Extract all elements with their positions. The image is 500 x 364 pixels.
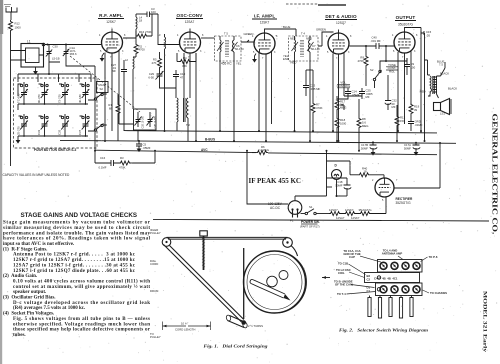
svg-text:12SQ7: 12SQ7	[329, 208, 338, 212]
trimmer capacitor row2 #4	[78, 114, 89, 137]
trimmer capacitor row1 #1	[17, 82, 28, 105]
resistor R8 5.6 MEG	[357, 99, 368, 151]
scan streak artifacts top right	[286, 3, 318, 5]
svg-text:12SK7: 12SK7	[260, 21, 270, 25]
junction dot	[47, 44, 49, 46]
svg-text:those specified may help local: those specified may help localize defect…	[13, 328, 151, 333]
R.F. AMPL stage label	[98, 13, 124, 24]
resistor R16 270K	[136, 14, 152, 38]
capacitor gang C1B C2B box	[134, 109, 158, 130]
wire L1 to RF grid	[45, 44, 101, 46]
svg-text:12SQ7: 12SQ7	[336, 21, 346, 25]
svg-text:50MF: 50MF	[404, 146, 411, 150]
op... tube V1 R.F. 12SK7	[102, 32, 123, 53]
Fig 2 callout TO C1A	[343, 249, 381, 262]
svg-text:R3: R3	[120, 156, 124, 160]
capacitor C40 .001 MF	[371, 36, 395, 50]
ground in push button box	[16, 136, 21, 144]
svg-text:35Z5GT/G: 35Z5GT/G	[396, 201, 412, 205]
svg-text:40-180: 40-180	[78, 94, 82, 103]
svg-text:(1) R-F Stage Gains.: (1) R-F Stage Gains.	[3, 247, 48, 252]
transformer T5 dashed box	[215, 32, 242, 62]
capacitor C13 .005MF	[303, 70, 321, 96]
T5 secondary coil	[233, 36, 234, 61]
Fig 2 callout TO L2	[336, 268, 365, 278]
T6 secondary to speaker	[437, 76, 441, 98]
wire bus AVC y151	[95, 148, 437, 155]
svg-text:Fig. 2. Selector Switch Wiri: Fig. 2. Selector Switch Wiring Diagram	[339, 328, 428, 333]
wire OUTPUT pins	[398, 51, 411, 131]
svg-text:YEL: YEL	[236, 62, 242, 66]
tube pin number digits	[99, 34, 418, 202]
Fig 2 terminal prongs	[368, 298, 413, 319]
Fig 2 callout TO CHASSIS	[423, 290, 448, 295]
Fig 1 cord right pulley to drum	[291, 246, 298, 257]
MAN S2 switch box	[97, 82, 109, 93]
svg-text:(4) Socket Pin Voltages.: (4) Socket Pin Voltages.	[3, 312, 55, 317]
Fig 1 dimension arrows	[163, 322, 211, 332]
resistor R6 2.2 MEG	[252, 145, 269, 155]
wire OUTPUT plate up	[405, 28, 422, 33]
svg-text:47K: 47K	[152, 61, 157, 65]
Fig 1 left callout fragments	[150, 228, 161, 339]
capacitor C29 6-50 trimmer	[148, 71, 176, 88]
Fig 1 tuning shaft cylinder	[226, 315, 248, 329]
T5 trimmer arrows	[217, 42, 244, 51]
Fig 1 diagonal cord to tuning shaft	[164, 245, 244, 323]
coil L4	[136, 14, 143, 31]
svg-text:C2B 10-365: C2B 10-365	[155, 116, 157, 129]
svg-text:0.10 volts at 400 cycles acros: 0.10 volts at 400 cycles across volume c…	[13, 280, 150, 285]
Fig 2 callout TO C1B	[338, 262, 366, 275]
svg-text:.05MF: .05MF	[143, 146, 151, 150]
corner smudge mark	[4, 5, 11, 7]
svg-text:.001 MF: .001 MF	[371, 39, 382, 43]
svg-text:AVC: AVC	[201, 148, 208, 152]
switch S1 power	[301, 205, 330, 215]
svg-text:R16: R16	[139, 30, 145, 34]
svg-text:18: 18	[139, 19, 143, 23]
label 100-125V AC-DC	[268, 202, 283, 210]
tube V2 OSC 12SA7	[180, 32, 201, 53]
wire C13/R7 top	[306, 69, 313, 71]
pilot lamp D	[332, 164, 342, 197]
svg-text:input so that AVC is not effec: input so that AVC is not effective.	[3, 242, 75, 247]
svg-text:12SK7 r-f grid to 12SA7 grid.: 12SK7 r-f grid to 12SA7 grid. . . . . . …	[13, 258, 136, 263]
svg-text:.05: .05	[426, 33, 430, 37]
svg-text:CORD LENGTH: CORD LENGTH	[175, 328, 195, 332]
OUTPUT stage label	[395, 15, 416, 27]
labels around T4	[283, 37, 312, 65]
Fig 1 left pulley	[162, 238, 171, 247]
wire C3 to OSC grid	[158, 14, 180, 45]
antenna terminal	[6, 7, 17, 12]
trimmer capacitor row2 #3	[58, 114, 69, 137]
Fig 1 cord around drum left tangent	[243, 248, 245, 319]
wire power feed vertical	[295, 151, 327, 201]
speaker LS1	[434, 99, 452, 116]
loop antenna L1	[11, 40, 44, 68]
svg-text:C35: C35	[58, 129, 62, 135]
capacitor C15 .05	[421, 30, 432, 37]
capacitor C10 47	[173, 70, 186, 88]
capacitor C14 .05MF	[345, 88, 360, 97]
power plug P1	[288, 201, 302, 223]
resistor R40 18	[350, 167, 384, 179]
wire OSC grid top	[189, 29, 191, 33]
svg-text:MF: MF	[112, 69, 116, 73]
svg-text:C30: C30	[53, 45, 59, 49]
wire speaker leads	[441, 62, 446, 76]
svg-text:470K: 470K	[316, 106, 323, 110]
svg-text:C1B 10-160: C1B 10-160	[143, 116, 145, 129]
svg-text:MEG: MEG	[340, 106, 346, 110]
svg-text:7.5: 7.5	[439, 63, 443, 67]
T4 core	[301, 40, 303, 57]
svg-text:BLACK: BLACK	[448, 87, 457, 91]
capacitor C25 .0005MF	[359, 88, 373, 99]
capacitor C5 .05MF	[136, 140, 151, 152]
DET & AUDIO stage label	[325, 14, 357, 25]
node contact circle at L1 top	[42, 43, 45, 46]
resistor R7 470K	[311, 70, 323, 131]
wire RF grid cap	[111, 29, 113, 33]
wire row1 top links	[18, 84, 83, 96]
wire IF pin drops	[259, 52, 272, 142]
svg-text:MEG: MEG	[362, 124, 368, 128]
wire OSC plate to T5	[201, 37, 215, 39]
wire row2 top links	[19, 115, 83, 117]
svg-text:470K: 470K	[119, 166, 126, 170]
ground RF cathode	[100, 53, 105, 62]
svg-text:100: 100	[151, 10, 156, 14]
T5 core	[226, 40, 228, 57]
wire vol net	[337, 96, 362, 99]
svg-text:BLACK: BLACK	[440, 72, 449, 76]
svg-text:C2: C2	[367, 278, 371, 282]
wire feed above push button box	[18, 62, 91, 82]
trimmer capacitor row1 #4	[78, 82, 89, 105]
svg-text:OUTPUT: OUTPUT	[396, 15, 416, 20]
wire T4 to DET grid GREEN	[316, 28, 334, 47]
T6 core bars	[433, 77, 438, 92]
svg-text:L1: L1	[27, 40, 31, 44]
wire RF pin drops	[105, 51, 133, 141]
svg-text:TC-680: TC-680	[17, 93, 21, 103]
tube V6 rectifier 35Z5	[375, 178, 394, 197]
svg-text:PULLEY: PULLEY	[150, 335, 161, 339]
T4 secondary coil	[309, 36, 310, 61]
svg-text:47: 47	[180, 76, 184, 80]
svg-text:60-140: 60-140	[235, 47, 244, 51]
svg-text:(R4) averages 7.5 volts at 100: (R4) averages 7.5 volts at 1000 kc.	[13, 306, 86, 311]
svg-text:control set at maximum, will g: control set at maximum, will give approx…	[13, 285, 150, 290]
transformer T2	[177, 98, 190, 141]
junction dots on buses	[94, 130, 426, 152]
wire pilot net	[327, 186, 333, 188]
Fig 1 cord anchor post	[279, 271, 288, 280]
wire IF top cap BLUE	[265, 25, 297, 36]
svg-text:90-370: 90-370	[37, 94, 41, 103]
wire bus inside push button box row2	[18, 135, 88, 137]
Fig 1 drum hub	[267, 276, 278, 287]
heater string resistors 12SQ7 12SK7 35L6GT/G	[329, 197, 386, 220]
svg-text:RED: RED	[291, 61, 297, 65]
resistor R1 68	[108, 95, 120, 141]
svg-text:.01MF: .01MF	[415, 123, 423, 127]
tube V5 OUTPUT 35L6	[394, 32, 415, 53]
wire plug to rail	[247, 151, 288, 204]
wire right rails B+	[421, 28, 428, 142]
transformer T6 output primary	[428, 75, 435, 96]
svg-text:50MF: 50MF	[361, 146, 368, 150]
svg-text:LS1: LS1	[440, 112, 445, 116]
svg-text:CAPACITY VALUES IN MMF UNLESS: CAPACITY VALUES IN MMF UNLESS NOTED	[3, 173, 70, 177]
svg-text:S2: S2	[100, 87, 104, 91]
svg-text:speaker output.: speaker output.	[13, 290, 47, 295]
OSC-CONV stage label	[176, 13, 203, 24]
Fig 1 dial drum inner circle	[247, 255, 302, 310]
svg-text:PUSH BUTTON SWITCH S-3: PUSH BUTTON SWITCH S-3	[34, 148, 76, 152]
resistor R12 1000	[9, 20, 22, 32]
svg-text:12SK7: 12SK7	[351, 216, 360, 220]
svg-text:COIL: COIL	[338, 271, 345, 275]
svg-text:BLUE: BLUE	[283, 25, 290, 29]
svg-text:tubes.: tubes.	[13, 333, 26, 338]
Fig 2 prong connection stubs	[370, 296, 412, 298]
transformer T4 dashed box	[289, 32, 319, 62]
capacitor C9 150	[404, 58, 416, 75]
Fig 1 pointer shaft rod	[250, 279, 290, 300]
svg-text:60-140: 60-140	[311, 47, 320, 51]
label POWER SW	[300, 220, 320, 229]
wire gang box down	[138, 130, 150, 141]
trimmer capacitor row2 #1	[17, 114, 28, 137]
coil L2	[125, 55, 136, 109]
svg-text:2.2 MEG: 2.2 MEG	[258, 148, 269, 152]
potentiometer R17 2.0 MEG	[335, 99, 346, 111]
resistor R5 47K	[152, 52, 162, 71]
svg-text:END: END	[283, 57, 289, 61]
svg-text:T 5: T 5	[224, 32, 228, 36]
svg-text:CORD: CORD	[150, 262, 158, 266]
svg-text:12SK7: 12SK7	[345, 208, 354, 212]
svg-text:OSC-CONV: OSC-CONV	[177, 13, 204, 18]
Fig 2 callout TO B-	[334, 280, 375, 288]
svg-text:ANTENNA AMP: ANTENNA AMP	[382, 252, 403, 256]
wire antenna lead down left rail	[10, 12, 12, 20]
svg-text:39: 39	[414, 108, 418, 112]
svg-text:Antenna Post to 12SK7 r-f grid: Antenna Post to 12SK7 r-f grid. . . . . …	[13, 253, 136, 258]
svg-text:DRUM: DRUM	[150, 289, 159, 293]
svg-text:455 KC: 455 KC	[221, 62, 232, 66]
trimmer capacitor row1 #2	[37, 82, 48, 105]
T5 primary coil	[220, 36, 221, 61]
svg-text:C37: C37	[78, 129, 82, 135]
wire rectifier top	[327, 161, 351, 175]
svg-text:C16: C16	[100, 156, 106, 160]
svg-text:.005 MF: .005 MF	[310, 87, 321, 91]
trimmer capacitor row1 #3	[58, 82, 69, 105]
Fig 1 right pulley	[283, 238, 293, 248]
svg-text:PULLEY: PULLEY	[150, 231, 161, 235]
svg-text:Stage gain measurements by vac: Stage gain measurements by vacuum tube v…	[3, 221, 151, 226]
dashed gang linkage C1A to C1B	[70, 56, 140, 112]
resistor R13 150	[395, 105, 406, 141]
wire DET pin drops	[333, 53, 344, 142]
coil L3	[157, 33, 165, 131]
push button switch S-3 dashed box	[14, 78, 98, 148]
svg-text:(PART OF R17): (PART OF R17)	[300, 225, 320, 229]
svg-text:150: 150	[400, 119, 405, 123]
svg-text:have tolerances of 20%. Readin: have tolerances of 20%. Readings taken w…	[3, 237, 151, 242]
svg-text:12SA7: 12SA7	[185, 20, 195, 24]
svg-text:TO CHASSIS: TO CHASSIS	[430, 291, 447, 295]
svg-text:GENERAL ELECTRIC CO.: GENERAL ELECTRIC CO.	[491, 114, 499, 235]
svg-text:35L6GT/G: 35L6GT/G	[359, 208, 372, 212]
Fig 1 spring anchor block	[200, 231, 208, 270]
label BLUE 7.5	[437, 60, 444, 67]
long rule separating figures	[153, 219, 489, 221]
svg-text:otherwise specified. Voltage r: otherwise specified. Voltage readings mu…	[13, 322, 150, 327]
svg-text:68: 68	[109, 107, 113, 111]
svg-text:TO C1B: TO C1B	[338, 262, 348, 266]
svg-text:10 ¾″: 10 ¾″	[181, 322, 188, 326]
wire T5 to IF grid	[241, 40, 255, 42]
resistor R2 4700	[134, 36, 145, 55]
svg-text:MF: MF	[366, 95, 370, 99]
capacitor C1A tuning	[63, 45, 77, 63]
svg-text:1000: 1000	[340, 122, 347, 126]
svg-text:12SA7 grid to 12SK7 i-f grid.: 12SA7 grid to 12SK7 i-f grid. . . . . . …	[13, 263, 136, 268]
svg-text:L2: L2	[125, 58, 129, 62]
stage gains body text	[3, 221, 151, 338]
svg-text:C33: C33	[37, 129, 41, 135]
wire C1A down	[66, 62, 95, 163]
label RECTIFIER 35Z5GT/G	[396, 197, 414, 205]
svg-text:12SK7 i-f grid to 12SQ7 diode: 12SK7 i-f grid to 12SQ7 diode plate. . .…	[13, 269, 136, 274]
capacitor C18 50MF	[327, 178, 352, 196]
T4 trimmer arrows	[292, 42, 321, 51]
svg-text:T 4: T 4	[301, 32, 305, 36]
svg-text:Fig. 1. Dial Cord Stringing: Fig. 1. Dial Cord Stringing	[204, 344, 269, 349]
svg-text:18: 18	[364, 170, 368, 174]
trimmer capacitor row2 #2	[37, 114, 48, 137]
wire OSC pins	[176, 53, 196, 141]
wire S2/C9 net	[380, 46, 407, 66]
svg-text:12SA7: 12SA7	[336, 216, 345, 220]
I.F. AMPL stage label	[252, 14, 277, 25]
svg-text:performance and isolate troubl: performance and isolate trouble. The gai…	[3, 231, 150, 236]
svg-text:MF: MF	[392, 105, 396, 109]
wire rectifier output	[394, 143, 440, 188]
svg-text:35L6GT/G: 35L6GT/G	[398, 23, 413, 27]
svg-text:73-270: 73-270	[58, 94, 62, 103]
TONE CONTROL label	[386, 63, 398, 73]
Fig 2 callout TO T-4	[337, 292, 376, 297]
ground IF cathode	[252, 54, 257, 63]
svg-text:4700: 4700	[139, 48, 146, 52]
svg-text:33K: 33K	[182, 64, 187, 68]
svg-text:12SK7: 12SK7	[106, 20, 116, 24]
Fig 2 callout TO P-6	[421, 255, 438, 262]
svg-text:NEG: NEG	[290, 37, 296, 41]
wire T5 pins down	[220, 61, 234, 141]
svg-text:R.F. AMPL: R.F. AMPL	[99, 13, 123, 18]
Fig 1 dial drum rim offset	[279, 251, 306, 313]
svg-text:6-50: 6-50	[148, 76, 154, 80]
VOL CONTROL label	[337, 81, 351, 89]
svg-text:1000: 1000	[15, 26, 22, 30]
resistor R4 33K	[177, 53, 196, 68]
Fig 1 dial drum outer circle	[244, 251, 306, 313]
svg-text:L3: L3	[157, 33, 161, 37]
wire T4 pins down	[295, 61, 311, 141]
Fig 2 middle bar	[365, 273, 420, 283]
svg-text:2 ½ TURNS: 2 ½ TURNS	[248, 324, 263, 328]
svg-text:TO T-4: TO T-4	[337, 292, 346, 296]
svg-text:0.1MF: 0.1MF	[99, 166, 107, 170]
svg-text:TO P-6: TO P-6	[429, 255, 438, 259]
resistor R18 1000	[335, 111, 347, 141]
switch lever lower (part of S2)	[88, 124, 107, 132]
switch lever upper (part of S2)	[88, 93, 107, 101]
capacitor C30 trimmer	[46, 45, 60, 61]
T4 primary coil	[295, 36, 296, 61]
capacitor C27 .01MF	[111, 60, 127, 131]
Fig 2 left contact marks	[367, 276, 381, 293]
svg-text:GREEN: GREEN	[316, 28, 326, 32]
capacitor C20 .01MF	[408, 119, 423, 131]
svg-text:(2) Audio Gain.: (2) Audio Gain.	[3, 274, 38, 279]
wire top rail L4/C3	[136, 13, 147, 15]
svg-text:DET & AUDIO: DET & AUDIO	[325, 14, 357, 19]
resistor R19 39	[409, 103, 420, 119]
capacitor C16 0.1MF with resistor R3 470K	[95, 151, 155, 170]
wire RF plate to L4	[123, 31, 136, 38]
svg-text:STAGE GAINS AND VOLTAGE CHECKS: STAGE GAINS AND VOLTAGE CHECKS	[21, 212, 138, 219]
svg-text:270K: 270K	[145, 30, 152, 34]
switch S2 tone	[370, 66, 382, 88]
svg-text:AC-DC: AC-DC	[270, 206, 281, 210]
wire bus y131	[124, 131, 437, 133]
capacitor C17A 50MF electrolytic	[404, 142, 420, 156]
svg-text:MODEL 321 Early: MODEL 321 Early	[482, 291, 488, 353]
svg-text:50MF: 50MF	[335, 183, 342, 187]
svg-text:365.6: 365.6	[70, 52, 77, 56]
Fig 2 bottom row rosette contacts	[380, 286, 420, 293]
tube V4 DET 12SQ7	[328, 33, 349, 54]
svg-text:(3) Oscillator Grid Bias.: (3) Oscillator Grid Bias.	[3, 296, 56, 301]
tube V3 I.F. 12SK7	[254, 33, 275, 54]
wire C30	[49, 45, 60, 63]
Fig 2 callout TO L4 AND ANTENNA AMP	[382, 249, 403, 260]
svg-text:L5-1B: L5-1B	[52, 57, 60, 61]
wire bus inside push button box row1	[18, 104, 88, 110]
Fig 2 top row rosette contacts	[380, 262, 420, 269]
svg-text:similar measuring devices may: similar measuring devices may be used to…	[3, 226, 150, 231]
svg-text:CAP: CAP	[349, 255, 355, 259]
capacitor C17B 50MF electrolytic	[361, 141, 377, 155]
Fig 1 top cord double line	[167, 237, 288, 239]
svg-text:OF THE CAN): OF THE CAN)	[335, 283, 353, 287]
wire DET plate to C40	[350, 45, 377, 47]
svg-text:25-270: 25-270	[17, 126, 21, 135]
svg-text:I.F. AMPL: I.F. AMPL	[254, 14, 276, 19]
left scan edge band	[0, 0, 2, 364]
svg-text:NEG: NEG	[306, 37, 312, 41]
wire DET grid cap	[338, 30, 340, 34]
